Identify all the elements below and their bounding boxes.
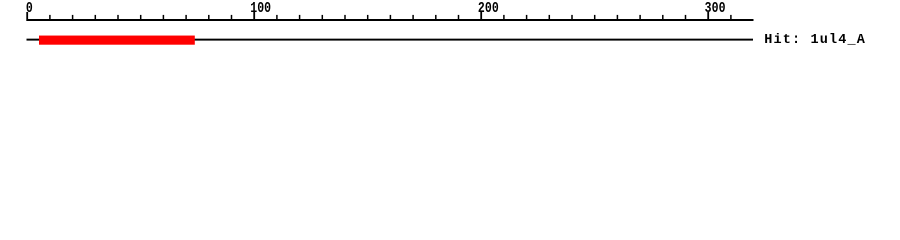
minor tick 20 [72, 15, 74, 21]
minor tick 230 [549, 15, 551, 21]
minor tick 150 [367, 15, 369, 21]
minor tick 130 [322, 15, 324, 21]
minor tick 60 [163, 15, 165, 21]
minor tick 140 [344, 15, 346, 21]
major tick 200 [480, 12, 482, 21]
minor tick 270 [639, 15, 641, 21]
minor tick 310 [730, 15, 732, 21]
minor tick 160 [390, 15, 392, 21]
svg-text:100: 100 [250, 0, 271, 16]
minor tick 260 [617, 15, 619, 21]
ruler label 200 [478, 0, 499, 16]
query line [27, 39, 754, 41]
minor tick 170 [412, 15, 414, 21]
minor tick 290 [685, 15, 687, 21]
ruler label 100 [250, 0, 271, 16]
minor tick 190 [458, 15, 460, 21]
svg-text:300: 300 [705, 0, 726, 16]
minor tick 10 [49, 15, 51, 21]
major tick 300 [707, 12, 709, 21]
major tick 100 [253, 12, 255, 21]
minor tick 240 [571, 15, 573, 21]
major tick 0 [26, 12, 28, 21]
minor tick 80 [208, 15, 210, 21]
minor tick 110 [276, 15, 278, 21]
minor tick 70 [185, 15, 187, 21]
svg-text:Hit: 1ul4_A: Hit: 1ul4_A [764, 33, 866, 48]
minor tick 30 [95, 15, 97, 21]
minor tick 210 [503, 15, 505, 21]
svg-text:0: 0 [26, 0, 33, 16]
minor tick 50 [140, 15, 142, 21]
minor tick 220 [526, 15, 528, 21]
minor tick 90 [231, 15, 233, 21]
hit match bar [39, 36, 195, 45]
minor tick 40 [117, 15, 119, 21]
minor tick 280 [662, 15, 664, 21]
ruler axis baseline [27, 19, 754, 21]
svg-text:200: 200 [478, 0, 499, 16]
minor tick 120 [299, 15, 301, 21]
minor tick 250 [594, 15, 596, 21]
ruler label 0 [26, 0, 33, 16]
ruler label 300 [705, 0, 726, 16]
minor tick 180 [435, 15, 437, 21]
